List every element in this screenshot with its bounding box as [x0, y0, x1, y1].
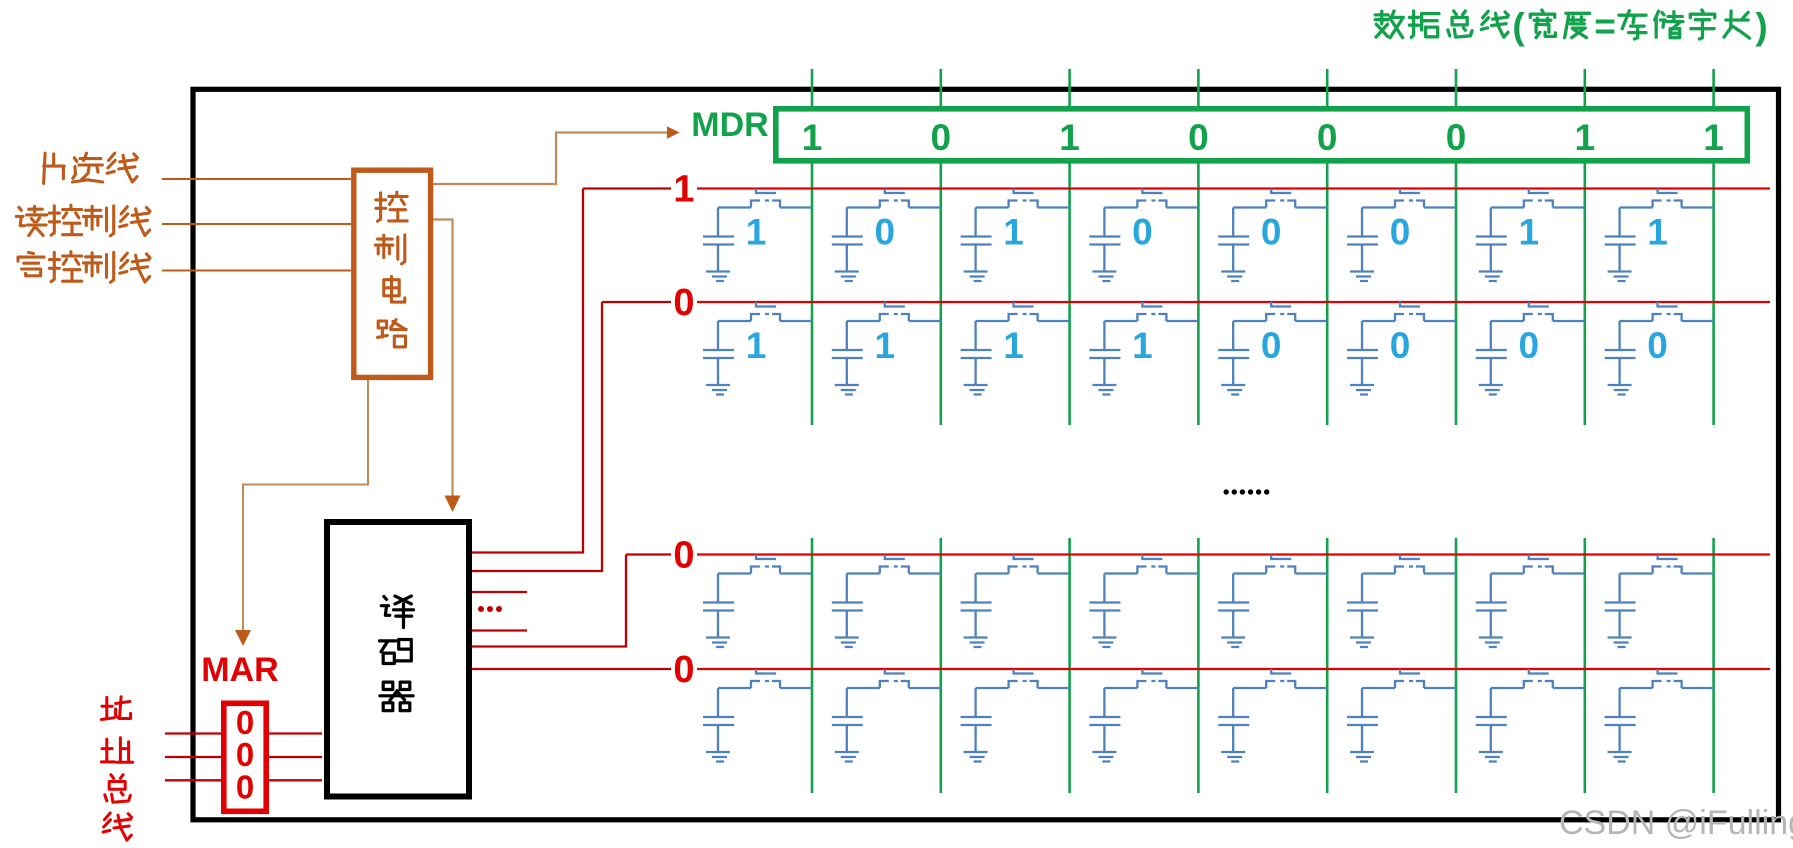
svg-text:1: 1 — [1703, 117, 1724, 158]
svg-text:0: 0 — [1390, 325, 1411, 366]
svg-text:0: 0 — [875, 212, 896, 253]
svg-text:0: 0 — [1390, 212, 1411, 253]
svg-text:0: 0 — [1519, 325, 1540, 366]
svg-text:1: 1 — [673, 169, 694, 211]
svg-text:0: 0 — [673, 282, 694, 324]
svg-text:0: 0 — [1261, 325, 1282, 366]
svg-text:): ) — [1755, 6, 1767, 47]
svg-text:1: 1 — [1519, 212, 1540, 253]
svg-text:(: ( — [1512, 6, 1525, 47]
svg-text:MDR: MDR — [691, 106, 768, 144]
svg-text:1: 1 — [875, 325, 896, 366]
svg-text:1: 1 — [1059, 117, 1080, 158]
svg-text:1: 1 — [1132, 325, 1153, 366]
svg-text:1: 1 — [1003, 212, 1024, 253]
svg-text:0: 0 — [1647, 325, 1668, 366]
svg-text:0: 0 — [673, 535, 694, 577]
svg-text:1: 1 — [1647, 212, 1668, 253]
svg-text:0: 0 — [1446, 117, 1467, 158]
svg-text:1: 1 — [1003, 325, 1024, 366]
svg-text:1: 1 — [802, 117, 823, 158]
svg-text:0: 0 — [1317, 117, 1338, 158]
svg-text:0: 0 — [236, 736, 254, 773]
svg-text:CSDN @iFulling: CSDN @iFulling — [1559, 804, 1793, 842]
svg-text:MAR: MAR — [201, 651, 278, 689]
svg-text:=: = — [1594, 6, 1616, 47]
svg-text:0: 0 — [673, 649, 694, 691]
svg-text:1: 1 — [746, 325, 767, 366]
svg-text:0: 0 — [931, 117, 952, 158]
svg-text:0: 0 — [1132, 212, 1153, 253]
svg-text:0: 0 — [1188, 117, 1209, 158]
svg-text:0: 0 — [1261, 212, 1282, 253]
svg-text:1: 1 — [746, 212, 767, 253]
svg-text:0: 0 — [236, 769, 254, 806]
svg-text:1: 1 — [1575, 117, 1596, 158]
